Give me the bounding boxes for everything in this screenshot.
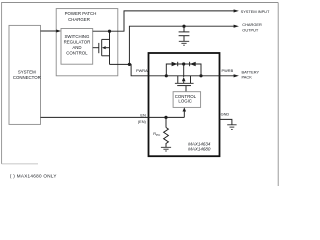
node PWRA junction [128, 63, 131, 66]
transistor Q2 internal FET [175, 64, 194, 92]
capacitor C1 [179, 26, 190, 41]
svg-text:LOGIC: LOGIC [178, 99, 192, 104]
svg-text:(EN): (EN) [138, 119, 147, 124]
box POWER PATCH CHARGER [56, 9, 118, 76]
diode D1 [172, 62, 178, 66]
box SYSTEM CONNECTOR [9, 25, 41, 124]
svg-text:CHARGER: CHARGER [68, 17, 90, 22]
svg-text:( ) MAX14680 ONLY: ( ) MAX14680 ONLY [10, 174, 57, 179]
svg-text:GND: GND [221, 112, 230, 117]
ground capacitor [179, 41, 189, 45]
svg-text:CONTROL: CONTROL [66, 50, 88, 55]
frame top border [1, 2, 278, 4]
IC U1 MAX14634/MAX14680 box [149, 53, 220, 156]
box SWITCHING REGULATOR AND CONTROL [61, 29, 93, 65]
svg-text:PWRA: PWRA [136, 68, 148, 73]
ground resistor [161, 147, 171, 151]
wire charger output [129, 26, 234, 64]
svg-text:SWITCHING: SWITCHING [64, 34, 89, 39]
svg-text:SYSTEM: SYSTEM [18, 70, 36, 75]
node EN junction [164, 116, 167, 119]
node diode mid [182, 62, 185, 65]
svg-text:EN: EN [140, 113, 146, 118]
wire system rail [93, 11, 235, 31]
svg-text:REGULATOR: REGULATOR [64, 39, 91, 44]
wire EN to control logic [183, 111, 185, 117]
frame right border [277, 3, 279, 187]
wire PWRA from FET [110, 64, 149, 75]
svg-text:PACK: PACK [242, 75, 253, 80]
transistor Q1 charger pass FET [93, 31, 110, 64]
frame bottom-left stub [2, 163, 38, 165]
node rail right [199, 74, 202, 77]
resistor RPC [164, 117, 169, 147]
node rail left [165, 74, 168, 77]
wire EN [41, 116, 185, 118]
diode D2 [190, 62, 196, 66]
wire IC main rail PWRB [149, 75, 235, 77]
frame left border [1, 3, 3, 164]
wire GND [220, 119, 232, 124]
arrowhead into regulator [56, 29, 61, 32]
wire connector to charger [41, 30, 57, 32]
arrowhead into control logic [183, 107, 187, 111]
svg-text:CHARGER: CHARGER [242, 22, 262, 27]
arrowhead CHARGER OUTPUT [234, 25, 239, 28]
arrowhead BATTERY PACK [234, 74, 239, 77]
svg-text:AND: AND [72, 45, 81, 50]
svg-text:CONNECTOR: CONNECTOR [13, 75, 41, 80]
svg-text:BATTERY: BATTERY [242, 69, 260, 74]
svg-text:OUTPUT: OUTPUT [242, 27, 259, 32]
svg-text:RPC: RPC [153, 131, 161, 137]
svg-text:PWRB: PWRB [222, 68, 234, 73]
svg-text:MAX14680: MAX14680 [188, 147, 211, 152]
svg-text:SYSTEM INPUT: SYSTEM INPUT [241, 9, 270, 14]
box CONTROL LOGIC [173, 92, 201, 108]
arrowhead SYSTEM INPUT [234, 9, 239, 12]
svg-text:POWER PATCH: POWER PATCH [65, 11, 97, 16]
ground GND pin [227, 125, 236, 130]
node capacitor tap [182, 25, 185, 28]
node drain junction [108, 30, 111, 33]
diode branch [166, 64, 201, 76]
